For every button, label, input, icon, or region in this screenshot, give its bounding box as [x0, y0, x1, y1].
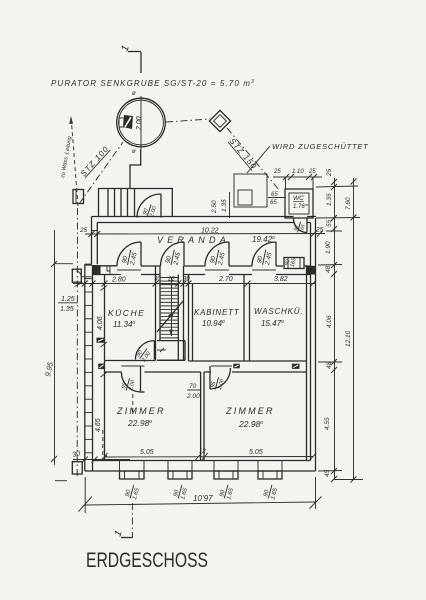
- svg-text:48: 48: [325, 265, 332, 273]
- svg-text:30: 30: [72, 450, 81, 459]
- svg-text:10’97: 10’97: [193, 494, 213, 503]
- svg-text:1.76m: 1.76m: [293, 202, 309, 210]
- svg-text:1.65: 1.65: [180, 487, 189, 500]
- svg-text:2.00: 2.00: [186, 393, 200, 400]
- svg-text:5.05: 5.05: [249, 449, 263, 456]
- svg-text:9.95: 9.95: [43, 360, 55, 377]
- svg-text:1.35: 1.35: [221, 199, 228, 212]
- svg-text:1.90: 1.90: [325, 241, 332, 254]
- svg-text:2.45: 2.45: [172, 251, 182, 266]
- svg-text:2.45: 2.45: [264, 251, 274, 266]
- svg-text:10.94o: 10.94o: [202, 319, 225, 328]
- svg-text:zu Wass. Leitung: zu Wass. Leitung: [60, 135, 74, 179]
- svg-text:ZIMMER: ZIMMER: [116, 406, 166, 416]
- svg-text:1.65: 1.65: [226, 487, 235, 500]
- svg-text:19.42o: 19.42o: [252, 235, 275, 244]
- svg-text:25: 25: [273, 169, 281, 175]
- svg-text:5.05: 5.05: [140, 449, 154, 456]
- svg-text:STZ 100: STZ 100: [79, 144, 111, 178]
- svg-text:12.10: 12.10: [345, 330, 352, 347]
- svg-text:48: 48: [326, 361, 333, 369]
- svg-text:15.47o: 15.47o: [261, 319, 284, 328]
- svg-text:4.65: 4.65: [95, 418, 102, 432]
- svg-text:WC: WC: [293, 195, 304, 202]
- svg-text:ERDGESCHOSS: ERDGESCHOSS: [86, 549, 208, 572]
- svg-text:25: 25: [79, 227, 88, 234]
- svg-text:7.60: 7.60: [345, 197, 352, 210]
- svg-text:VERANDA: VERANDA: [157, 235, 230, 245]
- svg-text:KABINETT: KABINETT: [194, 308, 240, 317]
- svg-text:PURATOR SENKGRUBE SG/ST-20 =: PURATOR SENKGRUBE SG/ST-20 = 5.70 m3: [51, 79, 255, 88]
- svg-text:22.98o: 22.98o: [238, 419, 263, 429]
- svg-text:1: 1: [119, 44, 131, 53]
- svg-text:70: 70: [189, 383, 197, 390]
- svg-text:2.45: 2.45: [129, 251, 139, 266]
- svg-text:4.06: 4.06: [326, 315, 333, 328]
- svg-text:2.50: 2.50: [211, 200, 218, 214]
- svg-text:3.82: 3.82: [274, 276, 288, 283]
- svg-text:1.35: 1.35: [60, 306, 74, 313]
- svg-text:25: 25: [315, 227, 324, 234]
- svg-text:22.98o: 22.98o: [127, 418, 152, 428]
- svg-text:25: 25: [308, 169, 316, 175]
- svg-text:11.34o: 11.34o: [113, 320, 135, 329]
- svg-text:KÜCHE: KÜCHE: [108, 308, 145, 318]
- svg-text:1.25: 1.25: [61, 296, 75, 303]
- svg-text:STZ 150: STZ 150: [227, 137, 258, 172]
- svg-text:WASCHKÜ.: WASCHKÜ.: [254, 307, 303, 316]
- svg-text:WIRD ZUGESCHÜTTET: WIRD ZUGESCHÜTTET: [272, 142, 369, 151]
- svg-text:2.80: 2.80: [111, 277, 126, 284]
- svg-text:1.65: 1.65: [132, 487, 141, 500]
- svg-text:30: 30: [183, 277, 190, 283]
- svg-text:22: 22: [167, 277, 175, 283]
- svg-text:45: 45: [324, 469, 331, 477]
- svg-text:ZIMMER: ZIMMER: [225, 406, 275, 416]
- svg-text:1.10: 1.10: [292, 169, 304, 175]
- svg-text:1: 1: [112, 529, 124, 538]
- svg-text:65: 65: [270, 200, 277, 206]
- svg-text:2.70: 2.70: [218, 276, 233, 283]
- svg-text:2.45: 2.45: [217, 251, 227, 266]
- svg-text:2.00: 2.00: [136, 116, 143, 131]
- svg-text:1.65: 1.65: [270, 487, 279, 500]
- svg-text:1.35: 1.35: [326, 193, 333, 206]
- svg-text:165: 165: [289, 257, 297, 268]
- svg-text:ø: ø: [132, 149, 136, 155]
- svg-text:ø: ø: [132, 91, 136, 97]
- svg-text:25: 25: [326, 168, 333, 177]
- svg-text:4.06: 4.06: [97, 316, 104, 330]
- svg-text:4.55: 4.55: [324, 417, 331, 430]
